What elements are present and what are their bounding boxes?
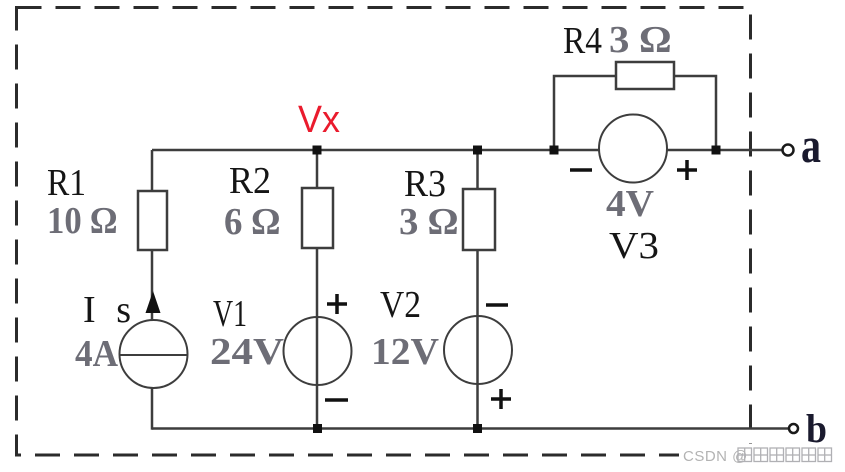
resistor R4 bbox=[616, 62, 674, 89]
svg-text:R2: R2 bbox=[229, 160, 271, 202]
svg-text:R4: R4 bbox=[563, 20, 602, 62]
node V3 left junction dot bbox=[550, 146, 559, 155]
resistor R2 bbox=[302, 188, 333, 248]
svg-text:V1: V1 bbox=[213, 293, 247, 335]
watermark backing bbox=[679, 444, 845, 468]
terminal b circle bbox=[789, 424, 798, 433]
resistor R3 bbox=[463, 189, 495, 250]
wire V3/R4 loop left bbox=[554, 76, 616, 150]
node V2 bottom junction dot bbox=[473, 424, 482, 433]
svg-text:6 Ω: 6 Ω bbox=[224, 201, 280, 243]
wire R3 branch top bbox=[476, 150, 479, 189]
current source Is arrow bbox=[146, 291, 161, 313]
wire bottom horizontal bus bbox=[152, 427, 789, 430]
V1 plus sign bbox=[327, 294, 347, 314]
wire R2 branch top bbox=[316, 150, 319, 188]
svg-text:I s: I s bbox=[83, 289, 131, 331]
svg-text:R1: R1 bbox=[47, 162, 86, 204]
svg-text:V2: V2 bbox=[380, 284, 421, 326]
current source Is bar bbox=[120, 354, 187, 356]
wire V3/R4 loop right bbox=[674, 76, 716, 150]
svg-text:V3: V3 bbox=[609, 225, 659, 267]
svg-text:24V: 24V bbox=[210, 331, 285, 373]
svg-text:3 Ω: 3 Ω bbox=[609, 19, 671, 61]
voltage source V2 circle bbox=[444, 316, 512, 384]
wire R2 through V1 to bottom bus bbox=[316, 248, 319, 429]
svg-text:12V: 12V bbox=[371, 331, 440, 373]
voltage source V3 circle bbox=[599, 115, 667, 183]
V3 minus sign bbox=[570, 168, 592, 172]
svg-text:R3: R3 bbox=[404, 163, 446, 205]
V3 plus sign bbox=[677, 160, 697, 180]
wire R3 through V2 to bottom bus bbox=[476, 250, 479, 429]
svg-text:4V: 4V bbox=[606, 183, 655, 225]
svg-text:4A: 4A bbox=[75, 333, 119, 375]
svg-text:Vx: Vx bbox=[298, 99, 340, 141]
svg-text:a: a bbox=[801, 117, 821, 173]
node R3 top junction dot bbox=[473, 146, 482, 155]
voltage source V1 circle bbox=[284, 317, 352, 385]
node V1 bottom junction dot bbox=[313, 424, 322, 433]
V2 minus sign bbox=[486, 303, 508, 307]
V2 plus sign bbox=[491, 389, 511, 409]
wire R1 to Is bbox=[151, 250, 154, 322]
resistor R1 bbox=[138, 191, 167, 250]
terminal a circle bbox=[783, 145, 794, 156]
svg-text:3 Ω: 3 Ω bbox=[399, 201, 458, 243]
node Vx junction dot bbox=[313, 146, 322, 155]
watermark glyph blocks bbox=[738, 448, 832, 462]
current source Is circle bbox=[120, 320, 188, 388]
node V3 right junction dot bbox=[712, 146, 721, 155]
svg-text:10 Ω: 10 Ω bbox=[47, 200, 117, 242]
wire Is to bottom bus bbox=[151, 388, 154, 430]
V1 minus sign bbox=[325, 398, 348, 402]
wire R1 branch top bbox=[151, 150, 154, 191]
wire top horizontal bus bbox=[152, 149, 782, 152]
